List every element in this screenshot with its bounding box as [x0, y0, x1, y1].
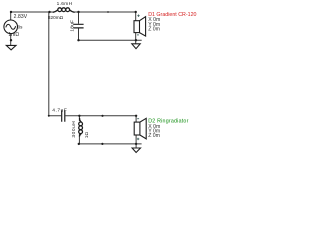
svg-text:Z 0m: Z 0m — [148, 133, 160, 139]
svg-text:1mΩ: 1mΩ — [8, 32, 19, 38]
svg-text:Z 0m: Z 0m — [148, 26, 160, 32]
svg-text:4.7uF: 4.7uF — [52, 107, 67, 113]
svg-text:300uH: 300uH — [71, 121, 77, 138]
svg-text:2.83V: 2.83V — [14, 14, 28, 20]
svg-text:820mΩ: 820mΩ — [48, 15, 64, 20]
svg-text:18uF: 18uF — [69, 20, 75, 32]
svg-text:1.6mH: 1.6mH — [57, 1, 73, 7]
svg-text:1Ω: 1Ω — [84, 132, 90, 139]
svg-text:0s: 0s — [18, 25, 24, 30]
